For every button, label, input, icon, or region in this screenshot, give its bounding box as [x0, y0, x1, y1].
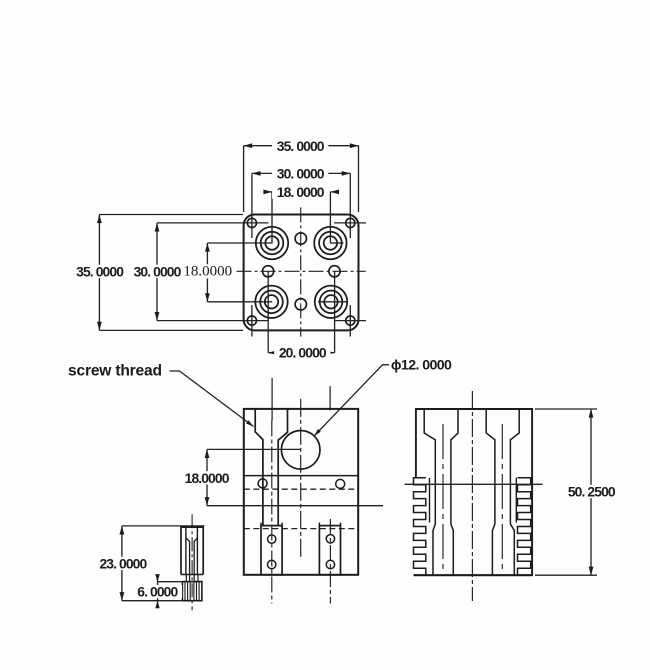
- phi 12 hole circle: [281, 431, 320, 470]
- svg-text:20. 0000: 20. 0000: [279, 345, 327, 361]
- right view vertical centerline: [471, 391, 473, 601]
- ext/crosshair vertical left (30.0000 top ext): [251, 173, 253, 238]
- thread counterbore left wall: [255, 409, 263, 526]
- svg-text:18.0000: 18.0000: [183, 263, 232, 279]
- top view plate outline: [244, 215, 359, 331]
- left fins inner boundary: [429, 478, 431, 523]
- stud thread line: [184, 582, 186, 601]
- threaded stud: [182, 582, 202, 601]
- dimension 30.0000 left: [156, 223, 158, 321]
- svg-text:50. 2500: 50. 2500: [568, 484, 616, 500]
- right tab hole lower: [326, 560, 334, 568]
- svg-text:18.0000: 18.0000: [185, 470, 230, 486]
- 18.0000 left top ext horizontal through hole: [207, 242, 272, 244]
- corner screw hole BR: [346, 316, 355, 325]
- 20.0000 right extension line: [334, 271, 336, 352]
- dimension 35.0000 left: [98, 215, 100, 331]
- top view horizontal centerline: [237, 270, 366, 272]
- svg-text:30. 0000: 30. 0000: [277, 165, 325, 181]
- hidden line upper: [244, 488, 358, 490]
- corner screw hole BL: [247, 316, 256, 325]
- svg-text:6. 0000: 6. 0000: [137, 584, 178, 600]
- screw thread leader line: [170, 371, 254, 427]
- projection line left hole column: [271, 378, 273, 421]
- right view horizontal line: [405, 483, 543, 485]
- hidden line at tab top: [244, 528, 358, 530]
- small hole right middle: [329, 266, 340, 277]
- right thread fins (zigzag): [518, 478, 531, 575]
- dimension 50.2500: [590, 409, 592, 575]
- right fins inner boundary: [515, 478, 517, 523]
- 18.0000 top left ext vertical through hole: [271, 192, 273, 244]
- left thread fins (zigzag): [414, 478, 426, 575]
- left tab hole lower: [268, 560, 276, 568]
- svg-text:18. 0000: 18. 0000: [277, 184, 325, 200]
- small hole bottom middle: [295, 299, 306, 310]
- detail view centerline: [191, 514, 193, 610]
- dimension 6.0000 (arrows outside): [157, 574, 159, 608]
- detail thread hole chamfer + minor lines: [186, 538, 190, 575]
- right view right hole: [486, 409, 495, 575]
- top view vertical centerline: [300, 207, 302, 336]
- phi12 leader line: [314, 365, 389, 436]
- svg-text:30. 0000: 30. 0000: [134, 263, 182, 279]
- dimension 35.0000 top: [244, 145, 359, 147]
- left mounting tab: [261, 526, 282, 575]
- ext/crosshair horizontal top-left corner hole (30.0000 left ext): [157, 222, 269, 224]
- crosshair horizontal bottom-right counterbore: [318, 301, 348, 303]
- svg-text:ϕ12. 0000: ϕ12. 0000: [391, 357, 452, 373]
- 20.0000 left extension line: [267, 271, 269, 352]
- counterbore hole bottom-right: [315, 286, 347, 318]
- 18.0000 front top extension line: [207, 448, 301, 450]
- right view left hole: [424, 409, 435, 575]
- thread neck lines: [186, 575, 198, 582]
- dimension 30.0000 top: [252, 172, 350, 174]
- counterbore hole bottom-left: [255, 286, 287, 318]
- ext/crosshair horizontal bottom-left corner hole (30.0000 left ext): [157, 320, 269, 322]
- dimension 23.0000: [121, 526, 123, 601]
- svg-text:23. 0000: 23. 0000: [99, 555, 147, 571]
- crosshair vertical bottom-left corner hole: [251, 305, 253, 337]
- svg-text:35. 0000: 35. 0000: [277, 138, 325, 154]
- right tab hole upper: [326, 535, 334, 543]
- svg-text:screw thread: screw thread: [68, 363, 162, 380]
- small hole left middle: [263, 266, 274, 277]
- centerline front view middle: [300, 399, 302, 560]
- right view outline: [414, 409, 533, 575]
- dimension 18.0000 front: [206, 449, 208, 505]
- right mounting tab: [319, 526, 340, 575]
- front small hole left: [258, 479, 267, 488]
- dimension 20.0000 bottom: [268, 352, 334, 354]
- corner screw hole TL: [247, 218, 256, 227]
- crosshair horizontal bottom-right corner hole: [334, 320, 366, 322]
- centerline right view left hole: [442, 424, 444, 573]
- dimension 18.0000 top (arrows outside): [264, 191, 272, 193]
- dimension 18.0000 left (serif): [206, 243, 208, 302]
- detail view cylinder: [181, 527, 203, 574]
- counterbore hole top-right: [314, 227, 346, 259]
- centerline left tab / thread hole: [271, 421, 273, 604]
- crosshair vertical bottom-right corner hole: [349, 305, 351, 337]
- centerline right tab: [329, 519, 331, 604]
- projection line right hole column: [329, 386, 331, 410]
- 18.0000 top right ext vertical through hole: [329, 192, 331, 244]
- centerline right view right hole: [501, 424, 503, 573]
- counterbore depth line: [244, 475, 358, 477]
- small hole top middle: [295, 233, 306, 244]
- front small hole right: [336, 479, 345, 488]
- thread counterbore right wall: [278, 409, 287, 526]
- 18.0000 front bottom extension line: [207, 505, 383, 507]
- left tab hole upper: [268, 535, 276, 543]
- front view block outline: [244, 409, 358, 575]
- ext/crosshair vertical right (30.0000 top ext): [349, 173, 351, 238]
- corner screw hole TR: [346, 218, 355, 227]
- crosshair horizontal top-right corner hole: [334, 222, 366, 224]
- detail collar: [181, 574, 203, 576]
- 18.0000 left bottom ext horizontal through hole: [207, 301, 272, 303]
- counterbore hole top-left: [256, 227, 288, 259]
- detail thread hole major lines: [185, 527, 187, 574]
- svg-text:35. 0000: 35. 0000: [76, 263, 124, 279]
- crosshair horizontal top-right counterbore: [330, 242, 343, 244]
